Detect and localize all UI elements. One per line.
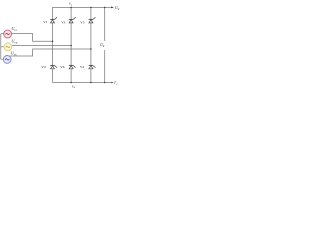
arrow Id top right [111,7,114,9]
arrow bottom right [111,82,113,84]
wire V6 lower lead [70,69,72,83]
svg-text:d: d [103,45,105,48]
label Ud top right [115,5,120,11]
label Ud (output voltage) [100,42,105,48]
svg-text:d: d [74,87,76,89]
wire V3 upper lead [70,7,72,19]
wire column 2 middle [70,23,72,66]
svg-text:V4: V4 [41,65,45,69]
wire load line upper segment [104,7,106,41]
wire V4 lower lead [52,69,54,83]
thyristor V1 [50,17,57,23]
wire load line lower segment [104,50,106,82]
source Uva (phase a) [4,30,12,38]
node bottom bus / load [104,82,106,84]
wire neutral link [0,34,2,60]
svg-text:d: d [71,4,73,6]
node phase b [70,45,72,47]
wire V5 upper lead [90,7,92,19]
thyristor V5 [89,17,96,23]
svg-text:d: d [116,83,118,86]
svg-text:VC: VC [14,53,18,56]
svg-text:V2: V2 [80,65,84,69]
node top bus / V5 [90,7,92,9]
wire phase c with jog [9,49,91,56]
thyristor V6 [69,65,76,68]
source Uvc (phase c) [3,56,11,64]
thyristor V3 [69,17,76,23]
wire column 3 middle [90,23,92,66]
thyristor V2 [89,65,96,68]
svg-text:V3: V3 [61,20,65,24]
wire top bus [53,6,111,8]
svg-text:V6: V6 [60,65,64,69]
svg-text:d: d [118,8,120,11]
source Uvb (phase b) [4,43,12,51]
wire neutral stub b [1,46,4,48]
wire neutral stub a [1,33,4,35]
node phase c [90,48,92,50]
label Uvc [11,50,17,56]
label bottom right [113,81,118,86]
wire phase b [12,45,72,47]
wire column 1 middle [52,23,54,66]
svg-text:V1: V1 [43,20,47,24]
label Uva [11,26,17,32]
label u2 above top bus at V3 node [69,2,73,7]
wire neutral stub c [1,58,4,60]
wire V1 upper lead [52,7,54,19]
node top bus / V3 [70,7,72,9]
wire V2 lower lead [90,69,92,83]
node bottom bus / V2 [90,82,92,84]
svg-text:VB: VB [14,41,18,44]
wire phase a with jog [11,34,52,42]
wire bottom bus [53,82,112,84]
node phase a [52,41,54,43]
node bottom bus / V6 [70,82,72,84]
svg-text:VA: VA [14,29,17,32]
thyristor V4 [50,65,57,68]
svg-text:V5: V5 [80,20,84,24]
label under bottom bus at V6 node [72,84,76,89]
label Uvb [11,38,17,44]
node top bus / load [104,7,106,9]
